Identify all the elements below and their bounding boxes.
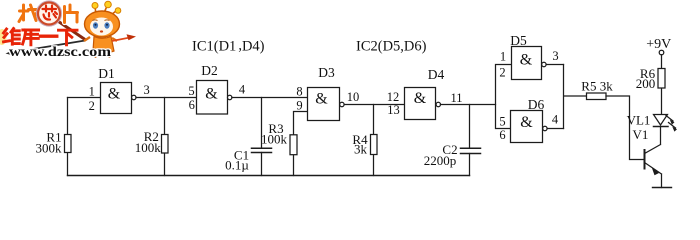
svg-text:4: 4 (552, 113, 559, 127)
svg-text:100k: 100k (261, 131, 288, 146)
svg-text:6: 6 (189, 98, 195, 112)
svg-text:R5 3k: R5 3k (581, 78, 613, 93)
svg-text:5: 5 (188, 84, 194, 98)
svg-text:5: 5 (499, 115, 505, 129)
svg-text:+9V: +9V (646, 37, 671, 52)
svg-text:2: 2 (89, 99, 95, 113)
svg-text:11: 11 (450, 91, 462, 105)
svg-text:D5: D5 (510, 33, 527, 48)
svg-text:2200p: 2200p (424, 153, 457, 168)
svg-text:V1: V1 (633, 127, 649, 142)
svg-text:3: 3 (552, 49, 558, 63)
svg-text:10: 10 (347, 90, 360, 104)
svg-text:&: & (205, 86, 218, 103)
svg-text:D1: D1 (98, 66, 115, 81)
svg-text:6: 6 (499, 128, 505, 142)
svg-text:0.1µ: 0.1µ (225, 157, 249, 172)
svg-text:IC1(D1,D4): IC1(D1,D4) (192, 38, 265, 55)
svg-text:12: 12 (387, 90, 400, 104)
svg-text:www.dzsc.com: www.dzsc.com (9, 44, 112, 59)
svg-text:IC2(D5,D6): IC2(D5,D6) (356, 39, 427, 55)
svg-text:3k: 3k (354, 141, 368, 156)
svg-text:&: & (520, 114, 533, 131)
svg-text:300k: 300k (36, 140, 63, 155)
svg-text:D4: D4 (428, 67, 445, 82)
svg-text:D3: D3 (318, 65, 335, 80)
svg-text:D2: D2 (201, 63, 218, 78)
svg-text:100k: 100k (135, 140, 162, 155)
svg-text:&: & (315, 91, 328, 108)
svg-text:&: & (520, 52, 533, 69)
svg-text:VL1: VL1 (627, 113, 651, 128)
svg-text:1: 1 (500, 50, 506, 64)
svg-text:4: 4 (239, 83, 246, 97)
svg-text:2: 2 (499, 66, 505, 80)
svg-text:&: & (108, 86, 121, 103)
svg-text:&: & (414, 90, 427, 107)
svg-text:200: 200 (636, 76, 656, 91)
svg-text:13: 13 (387, 103, 400, 117)
svg-text:9: 9 (296, 99, 302, 113)
svg-text:3: 3 (143, 83, 149, 97)
svg-text:D6: D6 (528, 97, 545, 112)
svg-text:1: 1 (89, 85, 95, 99)
svg-text:8: 8 (296, 85, 302, 99)
